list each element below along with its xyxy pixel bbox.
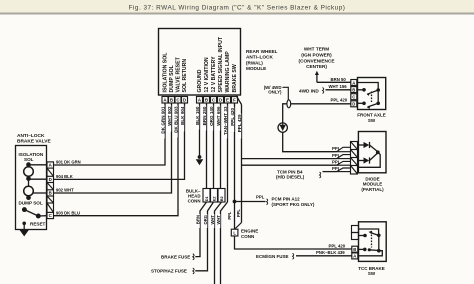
wire BRN 250 down to bulkhead (206, 103, 208, 188)
tcc brake sw internals (358, 229, 383, 256)
wire ORG 140 down to bulkhead (213, 103, 215, 188)
svg-text:(PARTIAL): (PARTIAL) (361, 187, 384, 192)
svg-text:B: B (352, 87, 355, 92)
svg-text:(IGN POWER): (IGN POWER) (301, 52, 332, 57)
svg-text:PPL 420: PPL 420 (331, 98, 348, 103)
tcc pin boxes B A (352, 246, 358, 259)
dump solenoid coil (24, 186, 34, 199)
svg-text:B: B (353, 247, 356, 252)
module wire labels (rotated, below pins) (160, 106, 242, 139)
svg-text:(SPORT PKG ONLY): (SPORT PKG ONLY) (272, 202, 315, 207)
svg-text:ECM/IGN FUSE: ECM/IGN FUSE (256, 254, 289, 259)
svg-text:B: B (170, 98, 173, 103)
svg-text:PPL 429: PPL 429 (237, 114, 242, 132)
diode module connector column (351, 142, 358, 175)
title banner (0, 0, 474, 15)
PPL rotated label near engine conn (236, 208, 241, 221)
svg-text:SOL RETURN: SOL RETURN (182, 59, 188, 93)
4WD IND label (299, 88, 324, 94)
wire TCM PIN B4 to diode module (323, 171, 337, 173)
bulkhead connector boxes (203, 189, 225, 203)
wire from node back to connector (358, 152, 380, 167)
svg-text:12 V BATTERY: 12 V BATTERY (211, 56, 217, 93)
WHT TERM (IGN POWER) (CONVENIENCE CENTER) label (299, 47, 335, 70)
svg-text:BRN 250: BRN 250 (202, 106, 207, 125)
svg-text:B: B (205, 98, 208, 103)
wire PCM branch (235, 201, 266, 203)
svg-text:PPL: PPL (236, 209, 241, 218)
engine conn label (241, 229, 258, 239)
svg-text:901 DK GRN: 901 DK GRN (56, 160, 81, 165)
svg-text:BLK 150: BLK 150 (195, 106, 200, 125)
wire PPL 420 down to tcc brake sw (235, 236, 352, 249)
inline connector oval (w/ 4wd only) (287, 100, 291, 108)
svg-text:904 BLK: 904 BLK (56, 174, 73, 179)
leader from label to inline connector (283, 87, 289, 100)
RWAL module box (159, 29, 241, 96)
svg-text:(CONVENIENCE: (CONVENIENCE (299, 58, 335, 63)
wire BLK 150 to ground (196, 103, 204, 165)
svg-text:TAN–WHT 33: TAN–WHT 33 (223, 106, 228, 135)
svg-text:MODULE: MODULE (246, 66, 266, 71)
svg-text:F: F (233, 98, 236, 103)
svg-text:D1: D1 (204, 195, 209, 201)
svg-text:SPEED SIGNAL INPUT: SPEED SIGNAL INPUT (218, 36, 224, 92)
wire PNK-BLK 439 to tcc brake sw pin A (296, 255, 352, 257)
svg-text:ANTI–LOCK: ANTI–LOCK (246, 55, 273, 60)
REAR WHEEL ANTI-LOCK (RWAL) MODULE label (246, 49, 278, 71)
svg-text:WHT: WHT (216, 215, 221, 225)
svg-text:PPL 420: PPL 420 (230, 108, 235, 126)
arrow up to WHT TERM (315, 71, 319, 83)
svg-text:(H/D DIESEL): (H/D DIESEL) (276, 175, 305, 180)
svg-text:REAR WHEEL: REAR WHEEL (246, 49, 278, 54)
bulk-head conn label (186, 189, 201, 204)
svg-text:BRAKE FUSE: BRAKE FUSE (161, 255, 190, 260)
PCM PIN A12 label (272, 197, 315, 208)
svg-text:SW: SW (368, 271, 376, 276)
module pin boxes group 1 (A B C D) (162, 97, 188, 104)
4WD IND lamp (278, 123, 287, 132)
svg-text:4WD IND: 4WD IND (299, 88, 319, 93)
wire 904 BLK: valve D to module pin D (54, 103, 185, 179)
svg-text:903 DK BLU: 903 DK BLU (56, 210, 80, 215)
isolation sol label (19, 152, 44, 162)
front axle sw box (358, 78, 386, 110)
terminal letters A D B C (49, 163, 53, 219)
svg-text:WARNING LAMP: WARNING LAMP (225, 51, 231, 93)
anti-lock brake valve label (17, 133, 51, 145)
svg-text:D: D (352, 102, 355, 107)
svg-text:STOP/HAZ FUSE: STOP/HAZ FUSE (151, 269, 187, 274)
svg-text:D: D (219, 98, 222, 103)
wire BRN 50 to front axle sw pin A (317, 81, 351, 83)
svg-text:GROUND: GROUND (197, 69, 203, 92)
svg-text:A: A (353, 254, 356, 259)
svg-text:RESET: RESET (30, 221, 46, 226)
bulkhead diagonals and lower wires (195, 202, 227, 284)
svg-text:Fig. 37: RWAL Wiring Diagram (: Fig. 37: RWAL Wiring Diagram ("C" & "K" … (129, 5, 346, 12)
wire from oval to 4wd ind lamp (283, 104, 287, 123)
svg-text:PPL 420: PPL 420 (329, 243, 346, 248)
wire 901 DK GRN: valve A to module pin A (54, 103, 166, 165)
svg-text:BRAKE VALVE: BRAKE VALVE (17, 139, 51, 145)
wire TAN-WHT 33 down (227, 103, 229, 202)
svg-text:WHT 902: WHT 902 (167, 106, 172, 126)
svg-text:BRN: BRN (196, 215, 201, 224)
reset contact (22, 222, 26, 226)
(W/ 4WD ONLY) label (264, 85, 282, 95)
ground (valve) (20, 225, 28, 235)
svg-text:PCM PIN A12: PCM PIN A12 (272, 197, 301, 202)
svg-text:WHT 696: WHT 696 (216, 106, 221, 126)
wire PPL 429 branch 2 to diode module (242, 164, 337, 166)
svg-text:SOL: SOL (24, 157, 34, 162)
anti-lock brake valve box (16, 146, 47, 230)
branch diagonal to PPL 429 (236, 96, 241, 105)
svg-text:ORG: ORG (203, 215, 208, 225)
valve connector column (47, 162, 54, 219)
wire: coil2 to terminal B (33, 192, 47, 194)
module pin boxes group 2 (A B C D E F) (197, 97, 238, 104)
svg-text:C: C (352, 95, 355, 100)
svg-text:(RWAL): (RWAL) (246, 60, 263, 65)
svg-text:BLK 904: BLK 904 (180, 106, 185, 125)
wire PPL 420 down from pin F (234, 103, 236, 229)
svg-text:A: A (352, 80, 355, 85)
diode D1 (358, 142, 378, 152)
svg-text:DK GRN 901: DK GRN 901 (160, 106, 165, 134)
svg-text:B: B (49, 191, 52, 196)
wire lamp down to diode module (PPL) (283, 132, 337, 151)
svg-text:BRN 50: BRN 50 (331, 77, 347, 82)
svg-text:PNK–BLK 439: PNK–BLK 439 (316, 250, 345, 255)
brake fuse label (161, 254, 194, 260)
tcc connector squares (352, 226, 359, 240)
wire WHT 696 down to bulkhead (220, 103, 222, 188)
svg-text:TCM PIN B4: TCM PIN B4 (277, 169, 303, 174)
diode module box (358, 132, 386, 173)
svg-text:PPL: PPL (227, 211, 232, 220)
svg-text:E: E (226, 98, 229, 103)
svg-text:PPL: PPL (332, 146, 341, 151)
front axle sw label (357, 113, 386, 123)
svg-text:D: D (49, 177, 52, 182)
wire: coil1 to coil2 (28, 180, 30, 186)
svg-text:SW: SW (368, 118, 376, 123)
flag wire-ends into diode connector (337, 147, 351, 171)
wire PPL 429 branch 1 to diode module (242, 158, 337, 160)
svg-text:902 WHT: 902 WHT (56, 188, 74, 193)
svg-text:12 V IGNITION: 12 V IGNITION (204, 57, 210, 92)
wire 902 WHT: valve B to module pin B (54, 103, 172, 193)
svg-text:B2: B2 (219, 195, 224, 201)
isolation solenoid coil (24, 163, 34, 180)
svg-text:PPL: PPL (256, 194, 265, 199)
reset switch (23, 208, 47, 218)
wire PPL 429 vertical (241, 105, 243, 223)
svg-text:ORG 140: ORG 140 (209, 106, 214, 126)
svg-text:CONN: CONN (188, 199, 201, 204)
stop/haz fuse label (151, 268, 194, 274)
wire: coil top to terminal A (29, 164, 48, 166)
junction on PPL 420 vertical (233, 200, 237, 204)
TCM PIN B4 label (276, 169, 321, 179)
svg-text:VALVE RESET: VALVE RESET (176, 56, 182, 92)
svg-text:DUMP SOL: DUMP SOL (169, 64, 175, 92)
svg-text:E2: E2 (212, 196, 217, 202)
wire WHT 156 to front axle sw pin B (326, 89, 351, 91)
front axle sw internals (357, 83, 378, 108)
svg-text:DK BLU 903: DK BLU 903 (173, 106, 178, 133)
diode D2 (358, 153, 378, 164)
engine conn box (231, 229, 238, 236)
svg-text:CONN: CONN (241, 234, 254, 239)
svg-text:L: L (233, 231, 236, 236)
tcc brake sw box (359, 222, 387, 262)
diode module label (361, 176, 384, 191)
diode common node (376, 150, 380, 154)
wire: coil bottom to terminal D (29, 178, 48, 180)
svg-text:ONLY): ONLY) (268, 90, 282, 95)
svg-text:WHT 156: WHT 156 (329, 84, 348, 89)
svg-text:DUMP SOL: DUMP SOL (19, 201, 43, 206)
tcc brake sw label (358, 266, 385, 276)
lower wire labels (rotated) (195, 214, 221, 228)
svg-text:ANTI–LOCK: ANTI–LOCK (17, 133, 45, 139)
svg-text:CENTER): CENTER) (306, 64, 327, 69)
module internal pin name labels (rotated) (163, 36, 239, 92)
front axle sw pin boxes A B C D (351, 80, 357, 107)
svg-text:BRAKE SW: BRAKE SW (232, 64, 238, 92)
svg-text:WHT: WHT (210, 215, 215, 225)
wire 903 DK BLU: valve C to module pin C (54, 103, 179, 216)
svg-text:D: D (183, 98, 186, 103)
svg-text:WHT TERM: WHT TERM (304, 47, 329, 52)
wire PPL 420 to front axle sw pin D (291, 103, 351, 105)
ECM/IGN fuse label (256, 253, 294, 259)
svg-text:ISOLATION SOL: ISOLATION SOL (163, 52, 169, 93)
